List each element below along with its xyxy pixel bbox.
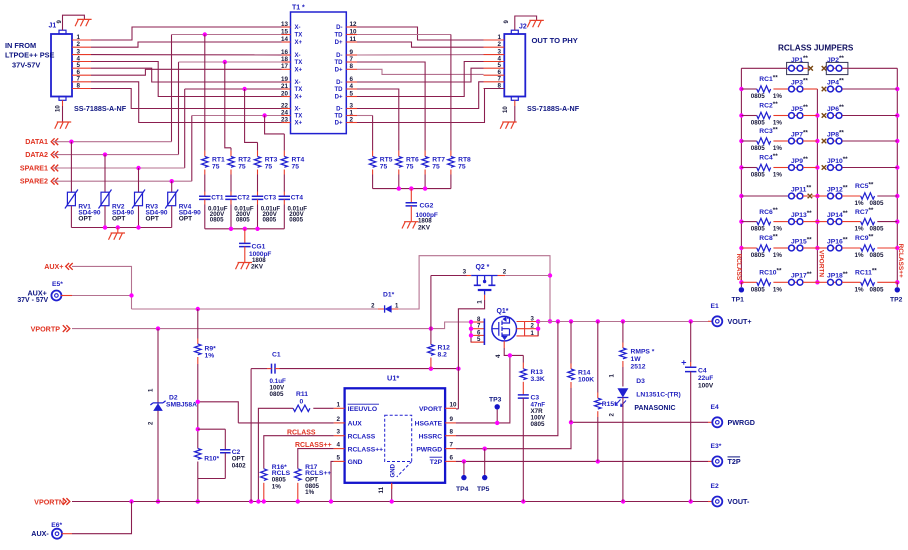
resistor RT6 75: [396, 151, 419, 189]
svg-text:75: 75: [265, 163, 273, 170]
resistor RC5 1%: [842, 181, 897, 207]
svg-text:10: 10: [450, 401, 457, 408]
junctions DATA/SPARE rows: [69, 140, 174, 184]
jumper JP3: [773, 78, 817, 92]
capacitor CT1 0.01uF: [199, 195, 228, 229]
svg-text:TP4: TP4: [456, 486, 469, 493]
testpoint TP3: [489, 397, 502, 423]
svg-text:5: 5: [337, 454, 341, 461]
junctions AUX+/Q2/VOUT+: [548, 273, 552, 323]
transistor Q2: [463, 264, 507, 304]
resistor RC4 1%: [741, 153, 782, 179]
svg-text:IN FROM: IN FROM: [5, 41, 36, 50]
svg-text:16: 16: [281, 49, 288, 56]
T1 left pin stubs: [282, 27, 291, 123]
jumper JP6: [827, 104, 898, 118]
svg-text:8: 8: [77, 82, 81, 89]
transistor Q1 MOSFET: [492, 308, 517, 341]
wire net VPORTN rail: [72, 501, 708, 503]
junctions R9/R10 node: [196, 400, 200, 504]
svg-text:0805: 0805: [870, 226, 884, 233]
resistor RC2 1%: [741, 101, 782, 127]
svg-text:0805: 0805: [751, 286, 765, 293]
ground at J1 top: [75, 19, 92, 26]
IC U1 LTPoE++ PD controller: [345, 374, 446, 483]
wire T1.10 tap riser to RT8: [357, 34, 451, 36]
wire RV common bus: [71, 227, 171, 229]
svg-text:VPORTN: VPORTN: [817, 250, 824, 277]
svg-text:DATA1: DATA1: [25, 138, 48, 146]
resistor RC8 1%: [741, 233, 782, 259]
svg-text:23: 23: [281, 116, 288, 123]
svg-text:Q1*: Q1*: [497, 308, 509, 315]
svg-text:TX: TX: [295, 87, 303, 93]
svg-text:D-: D-: [336, 80, 342, 86]
wire R10/C2 bottom rail: [198, 478, 226, 480]
svg-text:2: 2: [503, 269, 507, 276]
wire T1.5 to J2.4: [357, 62, 484, 97]
wire T1.2 to J2.8: [357, 89, 504, 123]
svg-text:1%: 1%: [773, 252, 782, 259]
svg-text:X-: X-: [295, 25, 301, 31]
varistor RV4 SD4-90: [165, 181, 201, 227]
wire J1 pin9 to chassis: [63, 15, 85, 30]
ground CG1: [236, 263, 253, 270]
svg-text:D+: D+: [335, 40, 343, 46]
wire T1.7 tap riser to RT7: [357, 62, 425, 151]
wire RT2 column top: [230, 148, 232, 151]
wire E5 to AUX+ riser: [72, 295, 132, 297]
svg-text:5: 5: [498, 62, 502, 69]
no-connect X left of JP6: [822, 113, 827, 118]
junction TP3: [495, 421, 499, 425]
svg-text:TD: TD: [334, 114, 343, 120]
svg-text:1%: 1%: [773, 172, 782, 179]
junctions right rail: [895, 87, 899, 285]
capacitor C3 47nF: [518, 395, 546, 502]
svg-text:75: 75: [238, 163, 246, 170]
junctions RT5-8 bus: [397, 186, 428, 190]
Q1 gate pin 4 to HSGATE: [495, 341, 523, 423]
svg-text:OUT TO PHY: OUT TO PHY: [532, 36, 578, 45]
svg-text:R14: R14: [578, 370, 591, 377]
junctions VPORTN rail: [129, 499, 693, 503]
svg-text:0805: 0805: [870, 200, 884, 207]
svg-text:VPORTN: VPORTN: [34, 499, 64, 507]
svg-text:RCLASS: RCLASS: [735, 254, 742, 281]
turret E2 VOUT-: [708, 483, 750, 507]
wire R10/C2 top rail: [198, 428, 226, 430]
svg-text:75: 75: [406, 163, 414, 170]
wire T1.8 to J2.6: [357, 69, 484, 74]
wire net SPARE1: [53, 167, 185, 169]
wire T1.4 tap riser to RT6: [357, 89, 399, 151]
diode D2 SMBJ58A: [149, 329, 198, 502]
wire net VPORT horizontal: [280, 368, 459, 370]
wire J2 pin9 to chassis: [515, 16, 537, 30]
svg-text:1: 1: [498, 34, 502, 41]
resistor R11 0 ohm: [258, 391, 333, 502]
svg-text:1%: 1%: [773, 226, 782, 233]
Q1 drain pin group (pins 8,7,6,5): [471, 317, 484, 345]
svg-text:R11: R11: [296, 391, 308, 398]
testpoint TP2: [890, 282, 903, 303]
capacitor C2 OPT 0402: [220, 429, 246, 478]
svg-text:VPORT: VPORT: [419, 406, 443, 413]
svg-text:E3*: E3*: [711, 443, 722, 450]
jumper JP10: [827, 156, 898, 170]
svg-text:OPT: OPT: [112, 215, 125, 222]
resistor RC6 1%: [741, 207, 782, 233]
resistor R15: [595, 321, 618, 461]
wire T1.9 to J2.3: [357, 54, 484, 56]
svg-text:D-: D-: [336, 25, 342, 31]
svg-text:PWRGD: PWRGD: [416, 446, 442, 453]
svg-text:LTPOE++ PSE: LTPOE++ PSE: [5, 51, 55, 60]
svg-text:18: 18: [281, 56, 288, 63]
jumper JP15: [773, 237, 817, 251]
svg-text:X+: X+: [295, 121, 303, 127]
resistor RT7 75: [422, 151, 445, 189]
jumper JP16: [817, 237, 848, 251]
wire divider node to AUX riser: [198, 402, 239, 423]
wire T1.11 to J2.2: [357, 42, 484, 47]
wire net DATA1: [53, 141, 172, 143]
U1 right pin stubs: [445, 408, 456, 461]
capacitor CT4 0.01uF: [279, 195, 308, 229]
wire Q2 gate to VPORTP riser: [431, 275, 467, 277]
wire net SPARE2: [53, 180, 192, 182]
svg-text:T2P: T2P: [430, 459, 443, 466]
wire T1.6 to J2.5: [357, 68, 484, 82]
wire net DATA2: [53, 154, 179, 156]
junctions VPORTP: [156, 326, 433, 330]
jumper JP18: [817, 271, 848, 285]
ground at J2 bottom: [500, 122, 517, 129]
wire RT5-8 common bus: [373, 188, 451, 190]
svg-text:4: 4: [337, 442, 341, 449]
svg-text:CG1: CG1: [252, 243, 266, 250]
svg-text:J1: J1: [49, 23, 57, 30]
J2 pin stubs: [484, 40, 505, 89]
connector J2 SS-7188S-A-NF: [504, 24, 527, 101]
resistor R13 3.3K: [520, 355, 545, 395]
resistor R10: [195, 402, 220, 502]
U1 pin numbers: [337, 401, 457, 493]
varistor RV1 SD4-90: [65, 142, 101, 228]
wire J1.8 to T1.22: [91, 89, 282, 109]
svg-text:D+: D+: [335, 67, 343, 73]
wire net SPARE1 riser to T1.21: [185, 89, 282, 168]
svg-text:E6*: E6*: [51, 522, 62, 529]
no-connect X right of JP11: [808, 194, 813, 199]
svg-text:1%: 1%: [855, 226, 864, 233]
svg-text:37V-57V: 37V-57V: [12, 61, 40, 70]
junction D2 to VPORTN: [156, 499, 160, 503]
svg-text:0805: 0805: [870, 286, 884, 293]
svg-text:D-: D-: [336, 53, 342, 59]
svg-text:9: 9: [350, 49, 354, 56]
no-connect X left of JP10: [822, 165, 827, 170]
svg-text:RCLASS: RCLASS: [287, 429, 316, 436]
svg-text:2KV: 2KV: [251, 264, 264, 271]
LED D3 LN1351C-(TR): [610, 374, 681, 502]
svg-text:11: 11: [350, 36, 357, 43]
svg-text:8: 8: [350, 63, 354, 70]
junctions VPORT line: [429, 367, 461, 371]
svg-text:0805: 0805: [751, 172, 765, 179]
wire J1.5 to T1.19: [91, 68, 282, 82]
svg-text:X-: X-: [295, 53, 301, 59]
svg-text:1%: 1%: [272, 483, 281, 490]
U1 left pin stubs: [334, 408, 345, 461]
wire VPORTN middle rail: [816, 89, 818, 282]
U1 pin names: [348, 404, 443, 466]
svg-text:0805: 0805: [531, 421, 545, 428]
svg-text:20: 20: [281, 90, 288, 97]
svg-text:13: 13: [281, 21, 288, 28]
wire U1 pin11 to VPORTN: [391, 483, 393, 502]
ground RV bus: [109, 233, 126, 240]
svg-text:75: 75: [380, 163, 388, 170]
svg-text:OPT: OPT: [78, 215, 91, 222]
svg-text:OPT: OPT: [146, 215, 159, 222]
svg-text:CT1: CT1: [211, 195, 224, 202]
svg-text:CT2: CT2: [237, 195, 250, 202]
resistor RC10 1%: [741, 268, 782, 294]
svg-text:1W: 1W: [631, 356, 642, 363]
svg-text:TP5: TP5: [477, 486, 490, 493]
resistor R12 8.2: [428, 276, 450, 369]
svg-text:0805: 0805: [263, 217, 277, 224]
turret E1 VOUT+: [708, 303, 752, 327]
resistor R14 100K: [568, 321, 594, 422]
svg-text:8: 8: [450, 429, 454, 436]
svg-text:IEEUVLO: IEEUVLO: [348, 406, 378, 413]
resistor RC9 1%: [842, 233, 897, 259]
J1 pin stubs: [72, 40, 91, 89]
wire net RCLASS to R16: [264, 436, 334, 469]
wire RCLASS++ right rail: [896, 68, 898, 282]
wire AUX pin2 row: [238, 422, 333, 424]
svg-text:R9*: R9*: [205, 346, 217, 353]
svg-text:0805: 0805: [870, 252, 884, 259]
jumper JP4: [827, 78, 898, 92]
svg-text:D-: D-: [336, 107, 342, 113]
svg-text:2KV: 2KV: [418, 224, 431, 231]
resistor RT1 75: [202, 151, 225, 197]
svg-text:6: 6: [350, 76, 354, 83]
wire E6 to VPORTN: [72, 502, 132, 534]
svg-text:CT3: CT3: [264, 195, 277, 202]
svg-text:0805: 0805: [210, 217, 224, 224]
svg-text:J2: J2: [519, 24, 527, 31]
junction AUX+/R9: [196, 307, 200, 311]
transformer T1: [291, 5, 347, 134]
svg-text:1: 1: [337, 401, 341, 408]
wire T1.1 tap riser to RT5: [357, 115, 373, 117]
svg-text:D+: D+: [335, 95, 343, 101]
svg-text:VOUT+: VOUT+: [728, 318, 752, 326]
svg-text:19: 19: [281, 76, 288, 83]
svg-text:E2: E2: [711, 483, 719, 490]
no-connect X left of JP8: [822, 139, 827, 144]
wire J1.7 to T1.23: [91, 82, 282, 123]
wire J1.1 to T1.13: [91, 27, 282, 40]
svg-text:X+: X+: [295, 40, 303, 46]
svg-text:0805: 0805: [751, 120, 765, 127]
wire AUX+ after D1 up and over to Q2 drain: [399, 256, 550, 322]
svg-text:CT4: CT4: [291, 195, 304, 202]
jumper JP12: [817, 185, 848, 199]
svg-text:PWRGD: PWRGD: [728, 419, 755, 427]
junctions T2P row: [462, 459, 600, 463]
svg-text:75: 75: [212, 163, 220, 170]
svg-text:CG2: CG2: [420, 203, 434, 210]
Q1 source pin group (pins 3,2,1): [517, 316, 539, 336]
svg-text:1%: 1%: [855, 286, 864, 293]
svg-text:1%: 1%: [305, 489, 314, 496]
svg-text:T2P: T2P: [728, 458, 741, 466]
svg-text:8.2: 8.2: [438, 352, 448, 359]
svg-text:TX: TX: [295, 60, 303, 66]
jumper JP7: [773, 130, 817, 144]
svg-text:RCLASS JUMPERS: RCLASS JUMPERS: [778, 44, 854, 53]
svg-text:X-: X-: [295, 107, 301, 113]
label IN FROM LTPOE++ PSE 37V-57V: [5, 41, 55, 70]
svg-text:GND: GND: [348, 459, 363, 466]
svg-text:RCLASS++: RCLASS++: [295, 442, 332, 449]
svg-text:1%: 1%: [773, 145, 782, 152]
turret E5 AUX+: [17, 281, 63, 304]
svg-text:TD: TD: [334, 87, 343, 93]
svg-text:3: 3: [337, 429, 341, 436]
no-connect X right of JP1: [808, 66, 813, 71]
svg-text:4: 4: [350, 83, 354, 90]
resistor RC7 1%: [842, 207, 897, 233]
svg-text:RMPS *: RMPS *: [631, 349, 655, 356]
T1 right pin stubs: [346, 27, 357, 123]
wire net DATA2 riser to T1.18: [178, 62, 180, 155]
capacitor CG2 1000pF: [406, 189, 438, 232]
svg-text:6: 6: [450, 454, 454, 461]
svg-text:X+: X+: [295, 95, 303, 101]
wire J1.4 to T1.20: [91, 62, 282, 97]
svg-text:14: 14: [281, 36, 288, 43]
svg-text:R10*: R10*: [204, 456, 219, 463]
svg-text:2: 2: [498, 41, 502, 48]
svg-text:12: 12: [350, 21, 357, 28]
svg-text:X-: X-: [295, 80, 301, 86]
svg-text:VOUT-: VOUT-: [728, 498, 750, 506]
wire RT3 column top: [257, 142, 259, 150]
svg-text:21: 21: [281, 83, 288, 90]
capacitor CT2 0.01uF: [225, 195, 254, 229]
wire J1.2 to T1.14: [91, 42, 282, 47]
svg-text:E5*: E5*: [52, 281, 63, 288]
svg-text:1%: 1%: [773, 286, 782, 293]
jumper JP8: [827, 130, 898, 144]
svg-text:R13: R13: [531, 369, 544, 376]
turret E6 AUX-: [31, 522, 62, 539]
svg-text:TD: TD: [334, 33, 343, 39]
junctions VOUT+ rail: [556, 319, 693, 323]
svg-text:22uF: 22uF: [698, 375, 713, 382]
testpoint TP5: [477, 449, 490, 493]
jumper JP2: [826, 55, 897, 75]
svg-text:SMBJ58A: SMBJ58A: [166, 402, 197, 409]
svg-text:3: 3: [350, 102, 354, 109]
svg-text:0805: 0805: [751, 252, 765, 259]
svg-text:7: 7: [350, 56, 354, 63]
svg-text:0805: 0805: [236, 217, 250, 224]
svg-text:D3: D3: [636, 378, 645, 385]
svg-text:5: 5: [77, 62, 81, 69]
svg-text:1%: 1%: [855, 252, 864, 259]
svg-text:22: 22: [281, 102, 288, 109]
wire E5 stub: [61, 295, 72, 297]
jumper JP17: [773, 271, 817, 285]
svg-text:C4: C4: [698, 368, 707, 375]
svg-text:0805: 0805: [289, 217, 303, 224]
svg-text:AUX: AUX: [348, 421, 363, 428]
resistor RT3 75: [254, 151, 277, 197]
svg-text:37V - 57V: 37V - 57V: [17, 297, 48, 304]
svg-text:5: 5: [350, 90, 354, 97]
svg-text:2: 2: [350, 116, 354, 123]
svg-text:DATA2: DATA2: [25, 151, 48, 159]
wire HSGATE row: [456, 422, 510, 424]
svg-text:4: 4: [495, 354, 502, 358]
ground at J2 top: [527, 20, 544, 27]
resistor RMPS 1W 2512: [620, 321, 655, 386]
U1 pin 11 stub: [391, 483, 393, 489]
varistor RV3 SD4-90: [132, 168, 168, 228]
svg-text:TP1: TP1: [732, 297, 745, 304]
svg-text:TX: TX: [295, 114, 303, 120]
svg-text:D2: D2: [169, 395, 178, 402]
wire J1.3 to T1.16: [91, 54, 282, 56]
svg-text:HSGATE: HSGATE: [415, 421, 443, 428]
wire PWRGD row to E4: [456, 422, 708, 448]
svg-text:1%: 1%: [773, 93, 782, 100]
svg-text:3.3K: 3.3K: [531, 376, 545, 383]
resistor RT4 75: [281, 151, 304, 197]
wire net AUX+ horizontal run: [132, 308, 378, 310]
wire net RCLASS++ to R17: [298, 449, 334, 469]
junctions on T1 tap rows: [203, 32, 267, 117]
svg-text:LN1351C-(TR): LN1351C-(TR): [636, 391, 680, 398]
wire RT1 column top: [204, 35, 206, 151]
svg-text:10: 10: [350, 28, 357, 35]
svg-text:PANASONIC: PANASONIC: [634, 405, 675, 412]
svg-text:0805: 0805: [751, 145, 765, 152]
svg-text:TD: TD: [334, 60, 343, 66]
junctions middle rail: [815, 113, 819, 284]
turret E4 PWRGD: [708, 404, 755, 428]
junctions PWRGD row: [483, 420, 574, 451]
svg-text:3: 3: [463, 269, 467, 276]
svg-text:E1: E1: [711, 303, 719, 310]
ground at J1 bottom: [55, 122, 71, 129]
svg-text:10: 10: [503, 106, 509, 113]
jumper JP14: [817, 210, 848, 224]
resistor R9 1%: [195, 309, 216, 402]
jumper JP11: [741, 185, 811, 199]
svg-text:C1: C1: [272, 352, 281, 359]
wire net SPARE2 riser to T1.24: [191, 116, 193, 182]
svg-text:X+: X+: [295, 67, 303, 73]
